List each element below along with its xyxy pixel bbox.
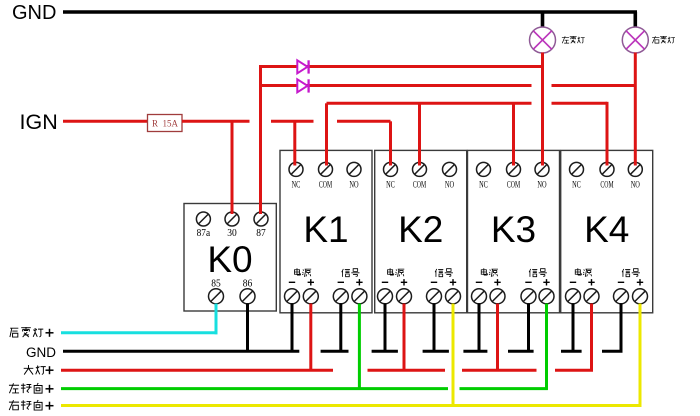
wire drop to K4 COM: [606, 102, 609, 166]
svg-text:87a: 87a: [197, 228, 211, 239]
bus 大灯+ segment 367.5-445: [368, 369, 446, 372]
bus GND segment 561-581.6: [561, 350, 582, 353]
svg-text:86: 86: [243, 278, 253, 289]
svg-text:30: 30: [227, 228, 237, 239]
svg-text:NC: NC: [572, 180, 581, 190]
svg-text:GND: GND: [12, 2, 56, 24]
label 右雾灯: [652, 36, 675, 43]
wire ground drop x=573: [572, 304, 575, 352]
svg-text:K0: K0: [207, 239, 252, 280]
svg-text:K4: K4: [584, 209, 629, 250]
wire COM bus left: [327, 102, 532, 105]
wire drop to K1 NC: [293, 121, 296, 165]
svg-text:NO: NO: [445, 180, 454, 190]
wire K3 signal+ drop (green): [545, 304, 548, 390]
wire coil+ drop x=310.8: [309, 304, 312, 371]
bus 后雾灯+: [61, 331, 218, 334]
bus 大灯+ segment 61-333: [61, 369, 333, 372]
bus GND segment 320.6-348.5: [321, 350, 349, 353]
relay K0: [184, 204, 276, 312]
wire IGN to fuse: [63, 120, 148, 123]
wire coil+ drop x=404: [403, 304, 406, 371]
wire diode row 2 left: [259, 84, 532, 87]
svg-text:87: 87: [256, 228, 266, 239]
svg-text:NC: NC: [292, 180, 301, 190]
svg-text:GND: GND: [26, 345, 56, 360]
bus GND segment 463.4-487.4: [463, 350, 487, 353]
wire IGN segment A: [182, 120, 250, 123]
wire K1 signal+ drop (green): [358, 304, 361, 390]
wire drop to K1 COM: [325, 103, 328, 165]
wire diode row 1: [259, 65, 543, 68]
lamp right fog 右雾灯: [622, 27, 648, 53]
wire coil+ drop x=591.5: [590, 304, 593, 371]
wire K4 signal+ drop (yellow): [639, 304, 642, 408]
bus 大灯+ segment 462-536.5: [462, 369, 537, 372]
wire GND drop to left fog lamp: [541, 12, 545, 28]
bus 大灯+ segment 555-593: [555, 369, 593, 372]
svg-text:COM: COM: [600, 180, 614, 190]
wire right lamp to K4 NO: [634, 53, 637, 166]
svg-text:NO: NO: [349, 180, 358, 190]
bus 右转向+: [61, 404, 641, 407]
wire diode row 2 right: [552, 84, 636, 87]
svg-text:85: 85: [211, 278, 221, 289]
svg-text:NO: NO: [537, 180, 546, 190]
svg-text:K3: K3: [491, 209, 536, 250]
bus GND segment 63-299.3: [63, 350, 299, 353]
label 左转向+: [9, 383, 54, 393]
wire drop to K2 NC: [389, 121, 392, 165]
wire drop to K0-30: [231, 121, 234, 214]
bus GND segment 371.6-397.9: [372, 350, 398, 353]
wire drop to K2 COM: [418, 103, 421, 165]
svg-text:NC: NC: [479, 180, 488, 190]
label 右转向+: [9, 400, 54, 410]
svg-text:NC: NC: [386, 180, 395, 190]
wire K0-87 riser: [259, 65, 262, 214]
bus GND segment 508-533.6: [508, 350, 534, 353]
relay K3: [468, 150, 560, 312]
wire GND top bus: [63, 10, 637, 14]
lamp left fog 左雾灯: [530, 27, 556, 53]
svg-text:K1: K1: [303, 209, 348, 250]
wire coil+ drop x=497.5: [496, 304, 499, 371]
wire IGN segment B: [271, 120, 314, 123]
svg-text:COM: COM: [319, 180, 333, 190]
wire COM bus right: [552, 102, 608, 105]
relay K1: [280, 150, 372, 312]
label 后雾灯+: [10, 327, 54, 337]
svg-text:COM: COM: [507, 180, 521, 190]
fuse R 15A: [148, 115, 183, 132]
wire GND drop to right fog lamp: [633, 12, 637, 28]
wire IGN segment C: [337, 120, 391, 123]
label 大灯+: [24, 365, 54, 375]
wire ground drop x=434: [433, 304, 436, 352]
bus 左转向+ segment 1: [61, 387, 448, 390]
wire ground drop x=621: [620, 304, 623, 352]
wire K0-86 to GND: [246, 304, 249, 352]
bus GND segment 602-622.5: [602, 350, 623, 353]
wire K2 signal+ drop (yellow): [452, 304, 455, 408]
diode D1: [297, 60, 308, 73]
svg-text:COM: COM: [413, 180, 427, 190]
wire ground drop x=479: [478, 304, 481, 352]
wire ground drop x=385: [384, 304, 387, 352]
wire ground drop x=340.8: [339, 304, 342, 352]
relay K4: [561, 150, 653, 312]
wire ground drop x=292: [291, 304, 294, 352]
relay K2: [375, 150, 467, 312]
wire ground drop x=528.5: [527, 304, 530, 352]
bus 左转向+ segment 2: [460, 387, 548, 390]
wire drop to K3 COM: [512, 103, 515, 165]
bus GND segment 422.6-448.9: [423, 350, 449, 353]
label 左雾灯: [562, 36, 585, 43]
svg-text:IGN: IGN: [20, 110, 58, 134]
diode D2: [297, 79, 308, 92]
svg-text:K2: K2: [398, 209, 443, 250]
wire K0-85 to 后雾灯+ (cyan): [215, 304, 218, 335]
svg-text:R 15A: R 15A: [152, 119, 179, 129]
svg-text:NO: NO: [631, 180, 640, 190]
wire left lamp to K3 NO: [541, 53, 544, 166]
